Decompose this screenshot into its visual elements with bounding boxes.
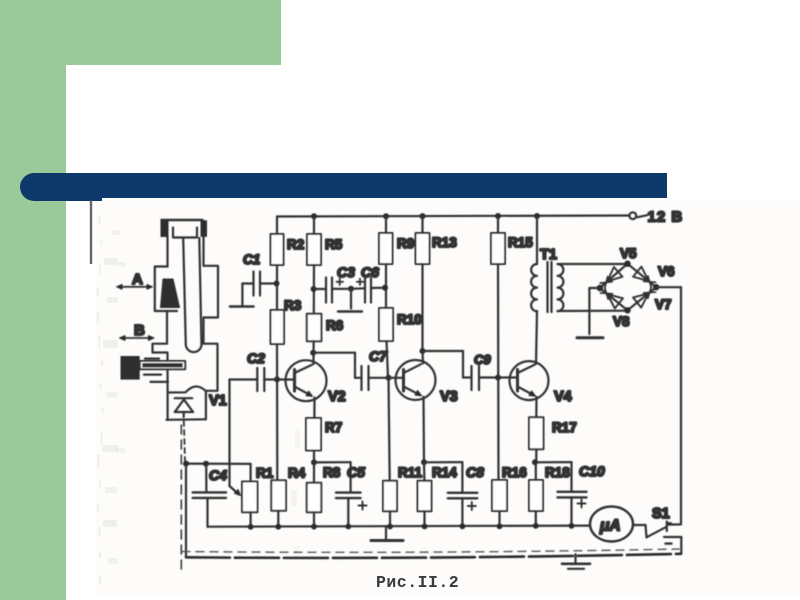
terminal box	[664, 536, 681, 538]
resistor R8	[307, 483, 322, 513]
resistor R15	[491, 233, 505, 264]
ground shield	[574, 554, 576, 563]
wire node to C10	[535, 461, 572, 463]
resistor R11	[383, 481, 397, 512]
wire V2 emitter to R7	[313, 398, 315, 419]
resistor R10	[379, 308, 393, 341]
sensor bottom edge	[168, 386, 206, 392]
capacitor C2	[256, 368, 258, 391]
wire meter to switch	[633, 524, 646, 526]
transistor V2	[286, 360, 327, 401]
transformer T1 core	[546, 262, 548, 312]
ground bridge	[577, 336, 603, 339]
trimmer arrow R1	[230, 486, 239, 494]
transistor V3	[396, 360, 436, 400]
resistor R7	[306, 418, 321, 451]
wire node to R14	[423, 462, 426, 480]
green top block	[0, 0, 281, 65]
scan page edge artifacts	[90, 200, 300, 584]
node rail R11	[387, 524, 393, 530]
node rail R5	[311, 213, 317, 219]
svg-text:R14: R14	[432, 465, 457, 480]
wire rail to R13	[421, 216, 423, 233]
resistor R1 trimmer	[242, 482, 258, 513]
node V3 emitter bottom	[421, 459, 427, 465]
sensor collector rod	[121, 356, 140, 380]
wire R17 to node	[535, 449, 537, 462]
svg-text:S1: S1	[652, 506, 670, 522]
svg-text:C10: C10	[579, 463, 605, 479]
terminal -12V	[629, 212, 636, 219]
node V2 collector	[310, 350, 316, 356]
svg-text:V3: V3	[440, 389, 458, 405]
label minus	[666, 542, 672, 544]
wire R9 to R10	[385, 264, 387, 308]
wire mid ground stem	[350, 289, 352, 309]
wire rail to R2	[276, 217, 278, 235]
resistor R2	[271, 234, 284, 265]
node R16 tap	[495, 375, 501, 381]
node bridge left	[597, 285, 603, 291]
shield bottom dashed	[182, 549, 679, 552]
svg-text:R15: R15	[508, 235, 533, 250]
wire rail to R9	[385, 216, 387, 233]
wire node to C8	[424, 461, 462, 463]
node C1 junction	[274, 281, 280, 287]
node rail R14	[422, 524, 428, 530]
wire C1 stub	[241, 284, 243, 306]
open terminal bar	[230, 305, 254, 308]
capacitor C3	[325, 278, 327, 303]
wire V1 lead dashed	[184, 421, 185, 461]
node rail R9	[383, 213, 389, 219]
capacitor C5	[350, 462, 352, 492]
wire R18 to rail	[535, 511, 537, 526]
arrow B	[122, 337, 152, 339]
svg-text:V8: V8	[613, 314, 630, 329]
wire R8 to rail	[313, 512, 315, 526]
wire coupling V3-C9	[423, 350, 464, 352]
diode V5	[607, 267, 622, 281]
wire secondary bottom	[558, 310, 628, 312]
svg-text:R4: R4	[288, 466, 306, 481]
wire secondary top	[558, 263, 627, 265]
svg-text:C9: C9	[474, 352, 491, 367]
wire row to R1	[250, 464, 252, 482]
svg-text:V7: V7	[655, 297, 672, 312]
resistor R4	[271, 480, 286, 511]
node rail R8	[311, 524, 317, 530]
wire C7 to V3 base	[369, 377, 404, 379]
wire R15 to R16	[497, 264, 500, 480]
svg-text:V2: V2	[328, 389, 346, 405]
capacitor C7	[360, 366, 362, 390]
wire rail to R5	[313, 216, 315, 234]
svg-text:R7: R7	[325, 420, 342, 435]
svg-text:V4: V4	[554, 389, 572, 405]
wire node to R18	[535, 462, 537, 480]
wire shield drop	[185, 464, 187, 557]
capacitor C8	[461, 462, 463, 492]
svg-text:C8: C8	[466, 464, 484, 480]
resistor R6	[307, 314, 322, 342]
sensor electrode plate	[161, 279, 180, 308]
node rail C8	[460, 523, 466, 529]
wire C9 to V4 base	[479, 376, 518, 378]
wire bridge left out	[589, 287, 599, 289]
capacitor C4	[205, 464, 207, 492]
capacitor C9	[470, 366, 472, 390]
node C3-C6 mid	[348, 286, 354, 292]
ground bottom rail	[371, 539, 403, 542]
wire V4 collector to T1	[536, 311, 537, 364]
wire R11 to rail	[389, 511, 391, 526]
wire contact to right bus	[667, 523, 681, 525]
wire -12V top rail	[277, 216, 629, 217]
wire bridge side B-R	[628, 287, 657, 310]
wire V3 emitter	[422, 397, 425, 463]
svg-text:R18: R18	[545, 465, 570, 480]
resistor R5	[307, 234, 321, 265]
svg-text:R1: R1	[256, 466, 274, 481]
node rail C5	[345, 524, 351, 530]
svg-text:C3: C3	[337, 264, 355, 280]
green left sidebar	[0, 0, 66, 600]
node rail R15	[495, 213, 501, 219]
node rail R16	[497, 523, 503, 529]
node C6 junction	[382, 285, 388, 291]
transistor V4	[510, 361, 549, 400]
transformer T1 secondary winding	[558, 264, 564, 311]
diode V6	[633, 267, 648, 281]
wire R6 to V2 collector	[312, 341, 314, 353]
wire coupling V2-C7	[313, 352, 355, 354]
arrow A	[119, 286, 150, 288]
svg-text:Рис.II.2: Рис.II.2	[376, 573, 459, 592]
svg-text:R9: R9	[397, 236, 414, 251]
wire V4 emitter to R17	[535, 397, 537, 417]
node V2 emitter bottom	[311, 459, 317, 465]
transformer T1 primary winding	[531, 264, 537, 311]
sensor inner electrode channel	[183, 238, 201, 352]
wire bridge side T-R	[628, 264, 657, 288]
svg-text:R3: R3	[284, 298, 302, 313]
wire bridge right out	[656, 286, 681, 288]
wire R13 to V3 collector	[421, 264, 423, 351]
node bridge top	[624, 261, 630, 267]
svg-text:C7: C7	[369, 348, 388, 364]
wire R5 to R6	[313, 265, 315, 314]
svg-text:V5: V5	[620, 246, 637, 261]
wire node to R8	[313, 462, 315, 482]
capacitor C1	[252, 272, 254, 296]
wire V3 collector	[421, 351, 424, 363]
diode V7	[633, 294, 648, 308]
sensor top cap	[162, 219, 203, 222]
resistor R16	[492, 480, 507, 511]
sensor body outline right	[204, 266, 219, 391]
node V3 collector	[420, 348, 426, 354]
svg-text:R13: R13	[432, 235, 457, 250]
meter uA	[590, 507, 633, 542]
navy title bar rounded cap	[20, 173, 102, 201]
wire R1 to rail	[250, 512, 252, 527]
svg-text:C4: C4	[209, 467, 227, 483]
svg-text:R6: R6	[326, 318, 344, 333]
svg-text:R17: R17	[552, 420, 577, 435]
resistor R9	[379, 233, 393, 264]
node rail T1	[534, 213, 540, 219]
svg-text:R5: R5	[325, 237, 343, 252]
scan paper background	[96, 201, 800, 598]
svg-text:B: B	[134, 322, 145, 339]
wire R16 to rail	[498, 511, 500, 526]
wire rail to R15	[497, 216, 499, 233]
svg-text:R2: R2	[287, 237, 304, 252]
wire ground stub	[385, 527, 387, 541]
wire bridge side T-L	[600, 264, 628, 288]
svg-text:R16: R16	[502, 465, 527, 480]
resistor R17	[529, 417, 544, 449]
svg-text:C1: C1	[243, 252, 260, 267]
node C3 junction	[311, 286, 317, 292]
wire R14 to rail	[423, 511, 425, 526]
diode V8	[608, 294, 623, 308]
node rail C10	[569, 523, 575, 529]
wire base node to R11	[389, 378, 390, 481]
wire common bottom	[186, 554, 681, 558]
capacitor C6	[364, 278, 366, 303]
node C4 top	[203, 461, 209, 467]
sensor inner cup	[173, 228, 197, 238]
wire R7 to node	[313, 451, 315, 463]
svg-text:R10: R10	[397, 312, 422, 327]
wire rail to T1 primary	[536, 216, 538, 264]
svg-text:V6: V6	[658, 264, 675, 279]
svg-text:T1: T1	[540, 247, 557, 263]
node R17-R18	[532, 459, 538, 465]
wire C2 to V2 base	[264, 378, 294, 380]
wire bridge side L-B	[600, 288, 628, 310]
wire R3 to base node	[276, 344, 278, 480]
svg-text:R8: R8	[323, 465, 341, 480]
node bridge bottom	[624, 307, 630, 313]
svg-text:C6: C6	[361, 264, 379, 280]
wire bottom rail	[208, 526, 591, 527]
svg-text:C2: C2	[247, 350, 265, 366]
node bridge right	[653, 284, 659, 290]
wire R10 to V3 base	[387, 341, 389, 378]
node shield tap	[183, 461, 189, 467]
node V3 base	[386, 375, 392, 381]
resistor R14	[418, 481, 432, 512]
svg-text:R11: R11	[398, 465, 423, 480]
shield left dashed	[180, 425, 182, 569]
wire R2 to R3	[276, 265, 278, 310]
node rail R18	[533, 523, 539, 529]
wire node row	[186, 463, 251, 465]
navy title bar	[60, 173, 667, 198]
wire R4 to rail	[277, 511, 279, 527]
svg-text:12 В: 12 В	[648, 209, 684, 226]
sensor neck walls	[166, 237, 168, 267]
svg-text:μA: μA	[599, 518, 621, 535]
ground bar C3C6	[338, 310, 362, 312]
node V2 base	[274, 376, 280, 382]
resistor R18	[529, 480, 543, 511]
node rail R1	[248, 524, 254, 530]
diode V1	[175, 397, 193, 399]
switch S1 contact	[666, 522, 668, 532]
diode V1 enclosure	[167, 393, 169, 420]
svg-text:V1: V1	[209, 393, 227, 409]
node rail R13	[420, 213, 426, 219]
wire node to C5	[314, 461, 351, 463]
wire V2 collector	[312, 353, 314, 364]
resistor R13	[416, 233, 430, 264]
capacitor C10	[570, 462, 572, 491]
wire R1 wiper to C2	[228, 380, 230, 486]
switch S1 arm	[647, 527, 666, 537]
sensor body outline left	[153, 267, 168, 393]
svg-text:C5: C5	[347, 464, 365, 480]
resistor R3	[271, 310, 285, 344]
node rail R4	[275, 524, 281, 530]
svg-text:A: A	[132, 271, 143, 288]
